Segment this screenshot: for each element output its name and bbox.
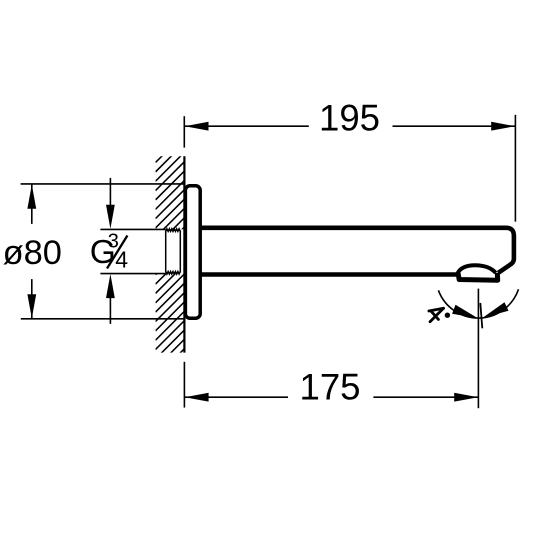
thread G3/4: fraction slash <box>107 236 127 269</box>
dimension 175: left arrowhead <box>185 393 209 402</box>
dimension 195: right arrowhead <box>491 122 515 131</box>
aerator outlet ring <box>458 273 498 281</box>
spray angle: left arrowhead <box>452 305 478 319</box>
spout tube body <box>200 228 514 273</box>
thread G3/4: top arrow <box>109 178 111 205</box>
aerator hump seam <box>457 265 495 273</box>
dimension dia80: bottom arrow <box>31 279 33 318</box>
spray angle: label 4 <box>429 308 444 321</box>
svg-text:4: 4 <box>115 247 128 273</box>
threaded pipe G3/4 behind wall <box>166 229 181 274</box>
dimension dia80: top extension line <box>21 183 185 185</box>
spray angle: degree mark <box>445 313 450 318</box>
spray angle: right arrowhead <box>483 302 509 318</box>
thread G3/4: top extension line <box>100 228 165 230</box>
dimension 175: right extension / spray axis line <box>477 289 479 409</box>
dimension 175: right arrowhead <box>454 393 478 402</box>
spray angle: 4 deg tilted line <box>480 303 482 328</box>
spout tube bottom edge <box>200 272 458 277</box>
svg-text:195: 195 <box>319 98 380 139</box>
spray angle arc <box>438 289 518 318</box>
dimension 175: dimension line <box>184 396 478 398</box>
dimension 195: left extension line <box>183 116 185 147</box>
dimension 195: dimension line <box>184 125 515 127</box>
thread G3/4: bottom arrow <box>109 298 111 324</box>
svg-text:175: 175 <box>299 367 360 408</box>
dimension 195: right extension line <box>514 115 516 222</box>
dimension 195: left arrowhead <box>185 122 209 131</box>
flange escutcheon <box>185 186 200 318</box>
dimension dia80: top arrow <box>31 184 33 224</box>
wall hatching <box>156 134 185 378</box>
dimension dia80: bottom extension line <box>21 318 185 320</box>
thread G3/4: bottom extension line <box>100 273 165 275</box>
wall face edge <box>183 156 185 352</box>
dimension 175: left extension line <box>183 362 185 408</box>
svg-text:ø80: ø80 <box>3 234 62 272</box>
